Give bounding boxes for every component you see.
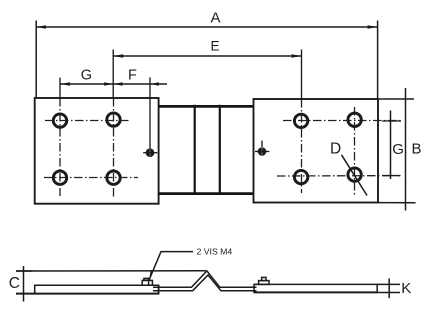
leader arrow tip: [149, 271, 153, 281]
middle element divider 1: [194, 105, 196, 195]
left plate: [35, 98, 159, 204]
dimension B line: [405, 88, 407, 211]
centerline horizontal left row2: [44, 177, 138, 179]
hole right bottom-right: [348, 168, 361, 181]
hole right top-right: [348, 113, 361, 126]
leader for 2 VIS M4 note: [149, 252, 193, 281]
middle element block top line: [159, 105, 254, 108]
dimension A extension right: [377, 21, 379, 100]
hole left top-right: [107, 113, 120, 126]
dimension G/F line: [60, 82, 167, 85]
svg-text:A: A: [211, 10, 221, 27]
dimension K line: [388, 278, 390, 298]
svg-text:G: G: [81, 68, 92, 84]
screw right (side view): [259, 277, 269, 284]
dimension K bottom tick: [377, 292, 400, 294]
centerline vertical left col1: [59, 98, 61, 196]
centerline horizontal right row2 (extends as right G bottom tick): [277, 175, 400, 177]
dimension G right line: [390, 111, 392, 180]
dimension G right top tick: [382, 120, 401, 122]
leader D: [342, 155, 368, 196]
dimension A extension left: [35, 21, 37, 98]
top surface line: [16, 270, 206, 272]
hole left bottom-left: [53, 171, 66, 184]
resistive strip with chevron bend (top line): [153, 271, 257, 287]
dimension G right bottom tick: [382, 175, 401, 177]
svg-text:D: D: [330, 141, 341, 158]
resistive strip with chevron bend (bottom line): [153, 275, 257, 291]
dimension G extension at first hole column: [59, 78, 61, 98]
centerline vertical right col2: [354, 107, 356, 197]
centerline vertical left col2: [113, 98, 115, 197]
right plate: [254, 99, 379, 203]
hole left top-left: [53, 114, 66, 127]
svg-text:K: K: [401, 280, 411, 297]
dimension B bottom tick: [378, 202, 416, 204]
dimension E line: [113, 54, 301, 58]
hole right top-left: [294, 114, 307, 127]
dimension C line: [23, 266, 25, 302]
right terminal plate (side view): [254, 284, 377, 293]
screw dot right (top view): [255, 141, 269, 156]
svg-text:B: B: [412, 141, 422, 158]
dimension A line: [36, 25, 378, 29]
svg-text:E: E: [211, 39, 220, 54]
dimension E extension right: [301, 50, 303, 100]
dimension F extension to screw: [149, 77, 151, 148]
svg-text:C: C: [9, 275, 20, 292]
centerline vertical right col1: [301, 99, 303, 193]
hole left bottom-right: [107, 171, 120, 184]
svg-text:2 VIS M4: 2 VIS M4: [197, 246, 233, 256]
screw dot left (top view): [143, 148, 157, 157]
middle element divider 2: [219, 105, 221, 195]
svg-text:G: G: [392, 141, 404, 158]
dimension E extension left: [112, 50, 114, 99]
centerline horizontal left row1: [45, 120, 129, 122]
centerline horizontal right row1 (extends as right G top tick): [283, 120, 401, 122]
left terminal bar (side view): [16, 285, 159, 295]
svg-text:F: F: [128, 68, 137, 84]
screw left (side view): [142, 278, 152, 286]
middle element block bottom line: [159, 192, 254, 195]
dimension K top tick: [377, 283, 400, 285]
dimension C top tick merges with top surface line: [16, 270, 33, 272]
hole right bottom-left: [294, 170, 307, 183]
dimension B top tick: [378, 98, 414, 100]
